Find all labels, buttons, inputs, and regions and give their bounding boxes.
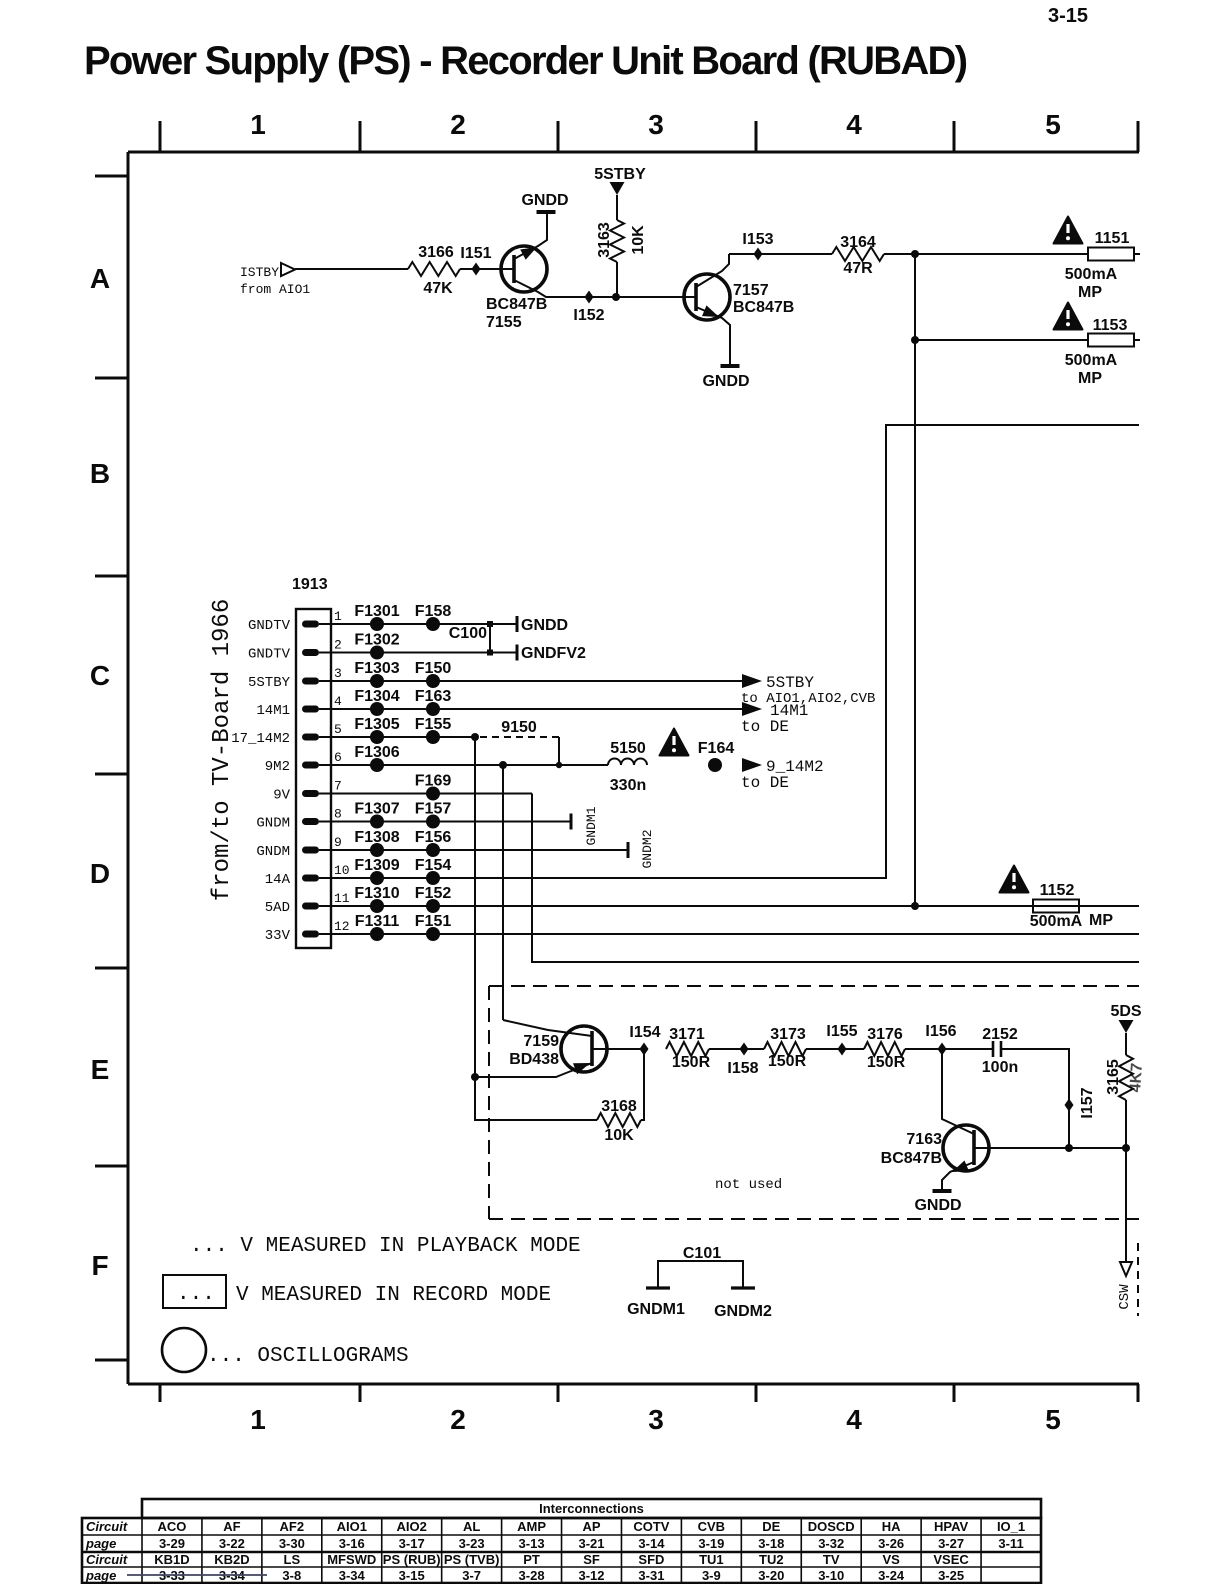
svg-text:GNDD: GNDD (702, 373, 749, 390)
wire pin 7 9V (319, 793, 532, 795)
page-edge dashed line (1137, 1243, 1139, 1316)
svg-text:5STBY: 5STBY (248, 675, 291, 691)
svg-text:MFSWD: MFSWD (327, 1552, 376, 1567)
svg-text:3-23: 3-23 (459, 1536, 485, 1551)
wire pin 5 17_14M2 (319, 736, 475, 738)
terminal bar GNDD (pin1) (516, 616, 519, 632)
svg-text:3-24: 3-24 (878, 1568, 905, 1583)
svg-text:SF: SF (583, 1552, 600, 1567)
svg-text:9150: 9150 (501, 719, 537, 736)
junction 9150/pin6 (556, 762, 562, 768)
wire R3176 to C2152 (905, 1048, 993, 1050)
resistor 3171 150R (666, 1042, 709, 1056)
svg-text:10K: 10K (630, 225, 647, 255)
wire pin 2 GNDTV (319, 652, 517, 654)
wire R3163 to node I152 wire (616, 262, 618, 297)
svg-text:TU1: TU1 (699, 1552, 724, 1567)
svg-text:3-25: 3-25 (938, 1568, 964, 1583)
fuse 1152 (1033, 900, 1079, 913)
wire node y340 down to 5AD line (914, 340, 916, 906)
svg-text:CVB: CVB (698, 1519, 725, 1534)
svg-text:I157: I157 (1079, 1087, 1096, 1118)
junction on pin5 wire (471, 733, 479, 741)
svg-text:3-31: 3-31 (638, 1568, 664, 1583)
transistor Q7159 circle (561, 1026, 607, 1072)
svg-text:3-12: 3-12 (578, 1568, 604, 1583)
svg-text:3163: 3163 (596, 222, 613, 258)
wire pin 4 14M1 (319, 708, 742, 710)
node I157 (1065, 1099, 1074, 1112)
svg-text:CSW: CSW (1117, 1284, 1133, 1310)
svg-text:47K: 47K (423, 280, 453, 297)
Q7157 base bar (694, 283, 698, 311)
Q7157 base lead (684, 296, 696, 298)
svg-text:8: 8 (334, 807, 342, 822)
svg-text:F164: F164 (698, 740, 735, 757)
svg-text:5: 5 (1045, 109, 1061, 140)
not-used dashed box bottom edge (489, 1218, 1139, 1220)
pen strike-through mark (127, 1574, 267, 1576)
svg-text:HA: HA (882, 1519, 901, 1534)
node I154 (640, 1043, 649, 1056)
top ruler tick 1 (159, 121, 162, 152)
connector pin 11 contact (302, 903, 319, 910)
wire R3171 to R3173 (709, 1048, 764, 1050)
5DS source arrow (1119, 1020, 1134, 1033)
svg-text:5: 5 (1045, 1404, 1061, 1435)
ground GNDD at Q7157 (721, 364, 740, 368)
top ruler tick 6 (1137, 121, 1140, 152)
connector pin 6 contact (302, 762, 319, 769)
Q7163 base lead (974, 1147, 1069, 1149)
svg-text:AF: AF (223, 1519, 240, 1534)
safety triangle for fuse 1152 (1000, 866, 1029, 893)
svg-text:C101: C101 (683, 1245, 721, 1262)
fusible link F1306 dot (370, 758, 384, 772)
svg-text:150R: 150R (867, 1054, 906, 1071)
border frame bottom edge (128, 1383, 1139, 1386)
svg-text:1152: 1152 (1040, 882, 1075, 899)
svg-text:F155: F155 (415, 716, 452, 733)
connector pin 1 contact (302, 621, 319, 628)
svg-text:3-10: 3-10 (818, 1568, 844, 1583)
svg-text:3-32: 3-32 (818, 1536, 844, 1551)
resistor 3166 47K (408, 262, 460, 276)
safety triangle for fuse 1153 (1054, 303, 1083, 330)
node I156 (938, 1043, 947, 1056)
connector pin 9 contact (302, 847, 319, 854)
top ruler tick 4 (755, 121, 758, 152)
Q7155 base bar (512, 255, 516, 283)
fusible link F152 dot (426, 899, 440, 913)
svg-text:17_14M2: 17_14M2 (231, 731, 290, 747)
inductor 5150 330n (608, 759, 647, 765)
svg-text:3-8: 3-8 (282, 1568, 301, 1583)
svg-text:BC847B: BC847B (881, 1150, 942, 1167)
CSW terminal triangle (1120, 1262, 1132, 1276)
svg-text:4: 4 (846, 109, 862, 140)
svg-text:KB1D: KB1D (154, 1552, 189, 1567)
svg-text:GNDM: GNDM (256, 844, 290, 860)
resistor 3165 (1119, 1055, 1133, 1100)
output arrow 14M1 (742, 702, 762, 716)
Q7155 collector lead (514, 280, 616, 297)
svg-text:3168: 3168 (601, 1098, 637, 1115)
svg-text:F157: F157 (415, 801, 452, 818)
svg-text:F1301: F1301 (354, 603, 399, 620)
svg-text:from AIO1: from AIO1 (240, 282, 310, 297)
fusible link F151 dot (426, 927, 440, 941)
svg-text:3-13: 3-13 (519, 1536, 545, 1551)
svg-text:D: D (90, 858, 110, 889)
resistor 3163 10K (610, 220, 624, 262)
connector pin 7 contact (302, 790, 319, 797)
svg-text:to DE: to DE (741, 774, 789, 792)
ground GNDD at Q7155 (537, 210, 556, 214)
svg-text:F1310: F1310 (354, 885, 399, 902)
node I155 (838, 1043, 847, 1056)
svg-text:150R: 150R (672, 1054, 711, 1071)
svg-text:LS: LS (284, 1552, 301, 1567)
svg-text:GNDM1: GNDM1 (627, 1301, 685, 1318)
wire down to CSW (1125, 1148, 1127, 1262)
left ruler tick (95, 377, 128, 380)
fusible link F158 dot (426, 617, 440, 631)
legend oscillogram circle (162, 1328, 206, 1372)
svg-text:F: F (91, 1250, 108, 1281)
svg-text:PS (RUB): PS (RUB) (383, 1552, 441, 1567)
capacitor C100 link (489, 624, 491, 653)
Q7163 bar (972, 1130, 976, 1165)
svg-text:150R: 150R (768, 1053, 807, 1070)
wire to fuse 1153 (915, 339, 1088, 341)
svg-text:Circuit: Circuit (86, 1552, 128, 1567)
left ruler tick (95, 773, 128, 776)
terminal bar GNDFV2 (pin2) (516, 645, 519, 661)
junction 5AD / riser (911, 902, 919, 910)
svg-text:PT: PT (523, 1552, 540, 1567)
svg-text:11: 11 (334, 891, 350, 906)
svg-text:AIO2: AIO2 (397, 1519, 427, 1534)
Q7159 emitter lead (475, 1063, 592, 1077)
svg-text:F151: F151 (415, 913, 452, 930)
interconnections table grid (142, 1499, 1041, 1518)
svg-text:F1309: F1309 (354, 857, 399, 874)
not-used dashed box top edge (489, 985, 1139, 987)
svg-text:9M2: 9M2 (265, 759, 290, 775)
C101 terminal bar GNDM1 (646, 1286, 670, 1289)
not-used dashed box left edge (488, 986, 490, 1219)
svg-text:GNDFV2: GNDFV2 (521, 645, 586, 662)
svg-text:1153: 1153 (1093, 317, 1128, 334)
svg-text:F1307: F1307 (354, 801, 399, 818)
svg-text:DOSCD: DOSCD (808, 1519, 855, 1534)
svg-text:14M1: 14M1 (256, 703, 290, 719)
svg-text:3176: 3176 (867, 1026, 903, 1043)
svg-text:GNDM1: GNDM1 (584, 806, 599, 845)
svg-text:9V: 9V (273, 788, 290, 804)
svg-text:C100: C100 (449, 625, 487, 642)
terminal bar GNDM1 (570, 814, 573, 830)
resistor 3176 150R (864, 1042, 905, 1056)
fusible link F1309 dot (370, 871, 384, 885)
Q7159 base lead (592, 1048, 644, 1050)
svg-text:page: page (85, 1536, 116, 1551)
svg-text:DE: DE (762, 1519, 780, 1534)
left ruler tick (95, 1165, 128, 1168)
svg-text:6: 6 (334, 750, 342, 765)
svg-text:AMP: AMP (517, 1519, 546, 1534)
svg-text:2152: 2152 (982, 1026, 1018, 1043)
Q7155 emitter arrow (520, 247, 537, 260)
fusible link F155 dot (426, 730, 440, 744)
fusible link F156 dot (426, 843, 440, 857)
svg-text:GNDM: GNDM (256, 816, 290, 832)
svg-text:3173: 3173 (770, 1026, 806, 1043)
wire pin 10 14A (319, 877, 886, 879)
wire R3173 to R3176 (806, 1048, 864, 1050)
svg-text:2: 2 (450, 1404, 466, 1435)
safety triangle for fuse 1151 (1054, 217, 1083, 244)
svg-text:5STBY: 5STBY (766, 674, 814, 692)
svg-text:330n: 330n (610, 777, 646, 794)
svg-text:3: 3 (648, 1404, 664, 1435)
wire 5DS to R3165 (1125, 1033, 1127, 1055)
svg-text:GNDD: GNDD (521, 192, 568, 209)
svg-text:2: 2 (450, 109, 466, 140)
svg-text:3-28: 3-28 (519, 1568, 545, 1583)
Q7159 emitter arrow (573, 1063, 590, 1074)
svg-text:GNDD: GNDD (521, 617, 568, 634)
junction Q7159 emitter / R3168 (471, 1073, 479, 1081)
svg-text:F163: F163 (415, 688, 452, 705)
transistor Q7163 circle (943, 1125, 989, 1171)
svg-text:1: 1 (334, 609, 342, 624)
svg-text:3-26: 3-26 (878, 1536, 904, 1551)
svg-text:1: 1 (250, 1404, 266, 1435)
fusible link F157 dot (426, 815, 440, 829)
Q7163 emitter lead (942, 1162, 974, 1190)
svg-text:5STBY: 5STBY (594, 166, 646, 183)
svg-text:MP: MP (1078, 284, 1102, 301)
svg-text:9: 9 (334, 835, 342, 850)
connector pin 4 contact (302, 706, 319, 713)
connector pin 10 contact (302, 875, 319, 882)
wire to Q7157 base (616, 296, 684, 298)
bottom ruler tick 6 (1137, 1384, 1140, 1402)
svg-text:33V: 33V (265, 928, 291, 944)
svg-text:47R: 47R (843, 260, 873, 277)
output arrow 9_14M2 (742, 758, 762, 772)
svg-text:I153: I153 (742, 231, 773, 248)
junction at Q7163 base / riser (1065, 1144, 1073, 1152)
terminal bar GNDM2 (627, 842, 630, 858)
svg-text:1151: 1151 (1095, 230, 1130, 247)
border frame top edge (128, 151, 1139, 154)
svg-text:F1303: F1303 (354, 660, 399, 677)
svg-text:C: C (90, 660, 110, 691)
svg-text:3-22: 3-22 (219, 1536, 245, 1551)
bottom ruler tick 3 (557, 1384, 560, 1402)
svg-text:GNDTV: GNDTV (248, 647, 291, 663)
svg-text:V MEASURED IN RECORD MODE: V MEASURED IN RECORD MODE (236, 1284, 551, 1307)
svg-text:...: ... (177, 1283, 215, 1306)
capacitor C101 bracket (658, 1261, 743, 1288)
svg-text:14A: 14A (265, 872, 291, 888)
safety triangle near F164 (660, 729, 689, 756)
svg-text:from/to TV-Board 1966: from/to TV-Board 1966 (209, 599, 236, 901)
svg-text:3-15: 3-15 (399, 1568, 425, 1583)
svg-text:to DE: to DE (741, 718, 789, 736)
wire I156 node down to Q7163 (942, 1049, 974, 1134)
fusible link F1310 dot (370, 899, 384, 913)
svg-text:7159: 7159 (523, 1033, 559, 1050)
svg-text:not used: not used (715, 1177, 782, 1193)
svg-text:GNDD: GNDD (914, 1197, 961, 1214)
fusible link F1308 dot (370, 843, 384, 857)
connector pin 8 contact (302, 818, 319, 825)
Q7157 emitter arrow (702, 305, 719, 317)
wire pin7 9V riser (532, 794, 1139, 963)
wire ISTBY to R3166 (295, 268, 408, 270)
fusible link F1302 dot (370, 646, 384, 660)
left ruler tick (95, 967, 128, 970)
svg-text:3-16: 3-16 (339, 1536, 365, 1551)
top ruler tick 3 (557, 121, 560, 152)
svg-text:F152: F152 (415, 885, 452, 902)
svg-text:10K: 10K (604, 1127, 634, 1144)
top ruler tick 5 (953, 121, 956, 152)
svg-text:... V MEASURED IN PLAYBACK MOD: ... V MEASURED IN PLAYBACK MODE (190, 1235, 581, 1258)
svg-text:F156: F156 (415, 829, 452, 846)
svg-text:COTV: COTV (633, 1519, 669, 1534)
svg-text:F1302: F1302 (354, 632, 399, 649)
svg-text:100n: 100n (982, 1059, 1018, 1076)
fusible link F1305 dot (370, 730, 384, 744)
junction at R3163 / base wire (612, 293, 620, 301)
svg-text:3-15: 3-15 (1048, 5, 1088, 27)
fusible link F1304 dot (370, 702, 384, 716)
svg-text:I158: I158 (727, 1060, 758, 1077)
svg-text:MP: MP (1089, 912, 1113, 929)
svg-text:BD438: BD438 (509, 1051, 559, 1068)
wire 5STBY arrow to R3163 (616, 195, 618, 220)
svg-text:3-21: 3-21 (578, 1536, 604, 1551)
svg-text:5DS: 5DS (1110, 1003, 1141, 1020)
svg-text:3-11: 3-11 (998, 1536, 1023, 1551)
svg-text:4K7: 4K7 (1127, 1062, 1146, 1093)
connector pin 3 contact (302, 678, 319, 685)
wire node y254 down to y340 (914, 254, 916, 340)
svg-text:3165: 3165 (1105, 1059, 1122, 1095)
svg-text:F1304: F1304 (354, 688, 399, 705)
svg-text:500mA: 500mA (1065, 352, 1118, 369)
svg-text:F1311: F1311 (355, 913, 400, 930)
wire emitter node to R3168 (475, 1077, 597, 1120)
connector 1913 body (296, 609, 331, 948)
svg-text:SFD: SFD (638, 1552, 664, 1567)
fusible link F150 dot (426, 674, 440, 688)
svg-text:F150: F150 (415, 660, 452, 677)
svg-text:3-30: 3-30 (279, 1536, 305, 1551)
svg-text:3164: 3164 (840, 234, 876, 251)
svg-text:A: A (90, 263, 110, 294)
svg-text:I152: I152 (573, 307, 604, 324)
svg-text:Circuit: Circuit (86, 1519, 128, 1534)
svg-text:3171: 3171 (669, 1026, 705, 1043)
svg-text:3-20: 3-20 (758, 1568, 784, 1583)
capacitor 2152 100n (992, 1041, 995, 1057)
Q7155 emitter lead to GNDD (514, 213, 547, 259)
left ruler tick (95, 1359, 128, 1362)
svg-text:I154: I154 (629, 1024, 660, 1041)
svg-text:500mA: 500mA (1030, 913, 1083, 930)
svg-text:Power Supply (PS) - Recorder U: Power Supply (PS) - Recorder Unit Board … (84, 39, 967, 83)
svg-text:ACO: ACO (158, 1519, 187, 1534)
svg-text:F158: F158 (415, 603, 452, 620)
output arrow 5STBY (742, 674, 762, 688)
svg-text:page: page (85, 1568, 116, 1583)
junction on pin6 wire (499, 761, 507, 769)
svg-text:PS (TVB): PS (TVB) (444, 1552, 500, 1567)
svg-text:VSEC: VSEC (933, 1552, 969, 1567)
svg-text:KB2D: KB2D (214, 1552, 249, 1567)
svg-text:10: 10 (334, 863, 350, 878)
wire pin 3 5STBY (319, 680, 742, 682)
svg-text:12: 12 (334, 919, 350, 934)
svg-text:HPAV: HPAV (934, 1519, 969, 1534)
svg-text:F1305: F1305 (354, 716, 399, 733)
svg-text:IO_1: IO_1 (997, 1519, 1025, 1534)
svg-text:... OSCILLOGRAMS: ... OSCILLOGRAMS (207, 1345, 409, 1368)
svg-text:7157: 7157 (733, 282, 769, 299)
bottom ruler tick 5 (953, 1384, 956, 1402)
Q7157 collector lead (696, 254, 729, 287)
wire R3166 to Q7155 base (460, 268, 502, 270)
fusible link F1301 dot (370, 617, 384, 631)
svg-text:F154: F154 (415, 857, 452, 874)
bottom ruler tick 2 (359, 1384, 362, 1402)
svg-text:5: 5 (334, 722, 342, 737)
connector pin 12 contact (302, 931, 319, 938)
svg-text:TV: TV (823, 1552, 840, 1567)
wire R3164 to fuse 1151 (884, 253, 1088, 255)
bottom ruler tick 4 (755, 1384, 758, 1402)
node I153 (754, 248, 763, 261)
node I158 (740, 1043, 749, 1056)
svg-text:4: 4 (334, 694, 342, 709)
svg-text:2: 2 (334, 638, 342, 653)
svg-text:3: 3 (648, 109, 664, 140)
connector pin 5 contact (302, 734, 319, 741)
svg-text:TU2: TU2 (759, 1552, 784, 1567)
resistor 3168 10K (597, 1113, 641, 1127)
Q7159 base bar (590, 1031, 594, 1066)
svg-text:Interconnections: Interconnections (539, 1501, 644, 1516)
wire R3165 to Q7163 base line (1125, 1100, 1127, 1148)
svg-text:MP: MP (1078, 370, 1102, 387)
ground GNDD at Q7163 (933, 1189, 952, 1193)
svg-text:4: 4 (846, 1404, 862, 1435)
svg-text:AL: AL (463, 1519, 480, 1534)
svg-text:I155: I155 (826, 1023, 857, 1040)
transistor Q7157 circle (684, 274, 730, 320)
junction node at x915 y254 (911, 250, 919, 258)
bottom ruler tick 1 (159, 1384, 162, 1402)
C101 terminal bar GNDM2 (731, 1286, 755, 1289)
svg-text:AP: AP (582, 1519, 600, 1534)
svg-text:3-19: 3-19 (698, 1536, 724, 1551)
